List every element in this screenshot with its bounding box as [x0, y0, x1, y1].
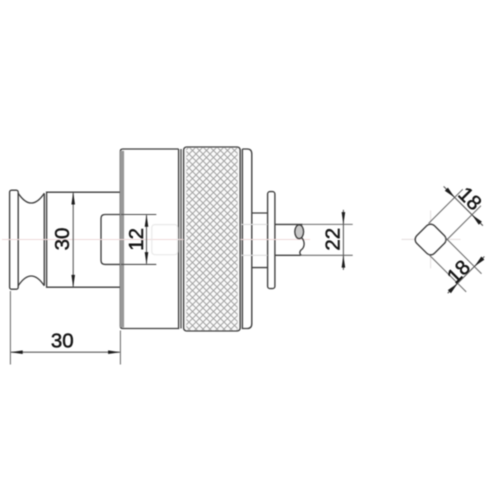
- dim 30 bottom extension lines: [10, 291, 120, 365]
- dim 22 extension lines: [301, 224, 353, 255]
- dim 18 bottom arrows: [448, 257, 485, 294]
- dim 18 top line: [444, 186, 483, 225]
- dim 12 extension lines: [121, 215, 156, 265]
- dim 22 arrows outside: [342, 212, 346, 268]
- groove end line: [43, 193, 45, 285]
- shaft break curve: [300, 238, 304, 256]
- groove section bottom curve: [18, 276, 44, 286]
- square corner ellipse: [295, 225, 304, 239]
- ring line before knurl: [180, 149, 182, 329]
- knurl hatch: [186, 148, 237, 330]
- dim 30 vertical line: [72, 193, 74, 286]
- dim 18 bottom extension line 1: [429, 255, 466, 292]
- hidden shaft lines through end cap and stub: [241, 224, 268, 255]
- body main cylinder: [120, 149, 178, 329]
- groove section top curve: [18, 193, 44, 203]
- svg-text:22: 22: [321, 228, 344, 251]
- left end cap: [10, 190, 19, 289]
- body left face thick band: [120, 151, 124, 328]
- dim 12 line: [146, 215, 148, 264]
- dim 18 top extension line 2: [445, 206, 481, 242]
- dim 18 top arrows: [445, 188, 482, 225]
- svg-text:30: 30: [51, 330, 74, 353]
- centerline side view vertical: [430, 211, 432, 269]
- centerline main view: [2, 239, 310, 241]
- shaft top line: [275, 223, 303, 225]
- knurled band: [184, 147, 241, 331]
- dim 18 bottom extension line 2: [445, 237, 482, 274]
- dim 30 bottom line: [11, 351, 120, 353]
- dim 30 vertical arrows: [71, 192, 75, 287]
- hidden bore rectangle inside body: [152, 225, 178, 255]
- dim 22 line: [342, 210, 344, 270]
- shank section: [47, 192, 121, 287]
- dim 18 top extension line 1: [429, 189, 463, 223]
- step 12 boss: [101, 215, 121, 265]
- dim 18 bottom line: [448, 257, 485, 294]
- shaft bottom line: [275, 254, 301, 256]
- svg-text:12: 12: [125, 228, 148, 251]
- end cap ring: [242, 149, 251, 329]
- stub shaft lines: [252, 213, 267, 268]
- dim 30 bottom arrows: [10, 350, 120, 354]
- dim 12 arrows: [145, 215, 149, 265]
- svg-text:18: 18: [453, 183, 485, 215]
- centerline side view horizontal: [402, 238, 461, 240]
- svg-text:18: 18: [443, 256, 475, 288]
- side view square rotated 45: [415, 224, 446, 255]
- front flange: [268, 192, 275, 289]
- svg-text:30: 30: [51, 228, 74, 251]
